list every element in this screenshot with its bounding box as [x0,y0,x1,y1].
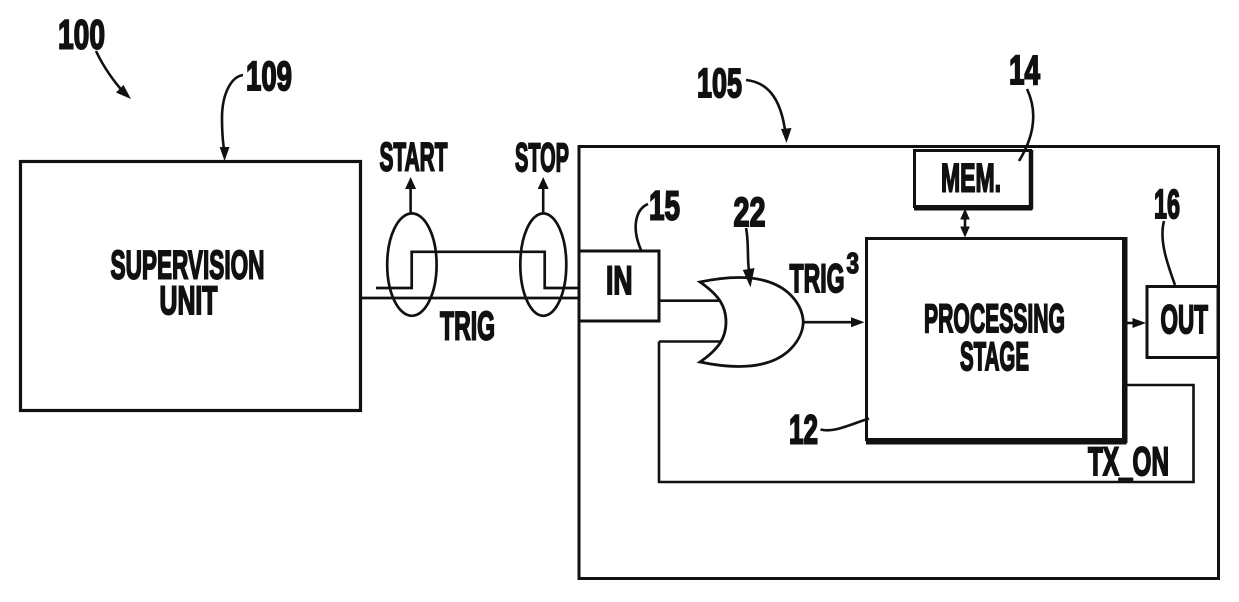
svg-text:UNIT: UNIT [160,279,218,323]
svg-text:16: 16 [1154,181,1180,227]
svg-text:109: 109 [246,53,292,99]
svg-text:STAGE: STAGE [960,335,1029,379]
svg-text:MEM.: MEM. [941,157,1001,201]
svg-text:12: 12 [789,407,818,453]
svg-text:14: 14 [1009,47,1040,93]
svg-text:STOP: STOP [515,136,569,180]
svg-text:START: START [380,136,448,180]
svg-text:15: 15 [649,183,680,229]
svg-text:TRIG: TRIG [440,305,495,349]
svg-text:TX_ON: TX_ON [1088,440,1169,484]
svg-text:100: 100 [58,12,105,58]
svg-text:OUT: OUT [1161,298,1209,342]
svg-text:TRIG: TRIG [790,257,845,301]
svg-text:IN: IN [606,259,633,303]
svg-text:22: 22 [734,189,766,235]
svg-text:105: 105 [697,60,742,106]
svg-text:3: 3 [847,248,860,280]
